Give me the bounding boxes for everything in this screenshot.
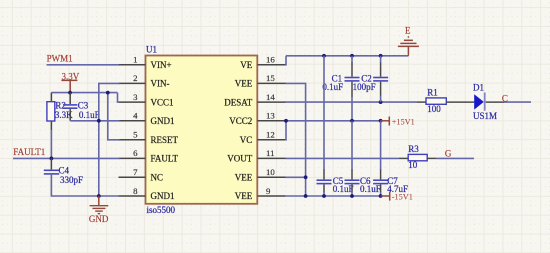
wire pin 10 VEE to riser [286, 176, 306, 178]
pin 16 VE [257, 55, 285, 65]
wire R1 to D1 [446, 101, 474, 103]
wire pin 11 VOUT to R3 [286, 157, 409, 159]
junction VC-VCC2 [284, 119, 288, 123]
pin 8 GND1 [119, 186, 146, 196]
resistor R1 [426, 87, 446, 114]
wire 3.3V rail to pin 3 VCC1 [118, 93, 120, 103]
svg-text:VIN-: VIN- [151, 79, 170, 89]
svg-text:1: 1 [133, 55, 137, 65]
svg-text:0.1uF: 0.1uF [79, 110, 100, 120]
svg-text:2: 2 [133, 73, 137, 83]
junction pin10-VEE riser [304, 175, 308, 179]
pin 11 VOUT [257, 148, 285, 158]
svg-text:G: G [445, 149, 452, 159]
svg-text:GND1: GND1 [151, 191, 175, 201]
svg-text:-15V1: -15V1 [392, 192, 413, 201]
svg-text:10: 10 [266, 167, 275, 177]
net label FAULT1 [13, 147, 45, 157]
svg-text:R3: R3 [408, 144, 419, 154]
svg-text:100: 100 [427, 104, 441, 114]
pin 12 VC [257, 130, 285, 140]
svg-text:VOUT: VOUT [227, 154, 252, 164]
svg-text:VE: VE [240, 60, 252, 70]
svg-text:100pF: 100pF [353, 82, 376, 92]
junction VEE rail C6 [350, 194, 354, 198]
IC U1 iso5500 body [146, 45, 258, 216]
svg-text:9: 9 [266, 186, 271, 196]
pin 7 NC [119, 167, 146, 177]
pin 10 VEE [257, 167, 285, 177]
svg-text:13: 13 [266, 111, 275, 121]
net label G [445, 149, 452, 159]
pin 2 VIN- [119, 73, 146, 83]
pin 15 VEE [257, 73, 285, 83]
svg-text:R1: R1 [427, 87, 438, 97]
svg-text:15: 15 [266, 73, 275, 83]
wire pin 16 VE riser [285, 56, 288, 65]
capacitor C5 [317, 56, 354, 196]
wire pin 15 VEE riser [286, 83, 306, 196]
svg-text:DESAT: DESAT [224, 97, 253, 107]
svg-text:VEE: VEE [235, 191, 253, 201]
pin 14 DESAT [257, 92, 285, 102]
svg-text:11: 11 [266, 148, 274, 158]
svg-text:FAULT1: FAULT1 [13, 147, 45, 157]
svg-text:GND1: GND1 [151, 116, 175, 126]
svg-text:16: 16 [266, 55, 275, 65]
power port +15V1 [381, 117, 415, 127]
junction DESAT-C2 [379, 100, 383, 104]
wire D1 to net C [486, 101, 531, 103]
svg-text:VEE: VEE [235, 173, 253, 183]
junction VEE rail C5 [322, 194, 326, 198]
pin 5 RESET [119, 130, 146, 140]
wire C4 bottom to pin 8 GND1 [51, 175, 119, 196]
wire FAULT1 to pin 6 [13, 157, 120, 159]
junction VE rail C1 column [350, 54, 354, 58]
wire pin 9 VEE rail [286, 195, 381, 197]
capacitor C3 [63, 93, 100, 121]
net label PWM1 [47, 54, 73, 64]
junction VCC2-C7 [379, 119, 383, 123]
svg-text:0.1uF: 0.1uF [333, 184, 354, 194]
junction GND at pin 8 wire [97, 194, 101, 198]
wire VIN- to GND column [99, 83, 120, 196]
wire 3.3V rail to pin 5 RESET [108, 93, 120, 140]
wire R3 to net G [427, 157, 474, 159]
svg-text:PWM1: PWM1 [47, 54, 73, 64]
diode D1 [473, 83, 497, 121]
svg-text:14: 14 [266, 92, 275, 102]
junction VE rail C2 column [379, 54, 383, 58]
svg-text:RESET: RESET [151, 135, 179, 145]
power port -15V1 [381, 192, 413, 202]
junction GND column at pin 4 [97, 119, 101, 123]
wire PWM1 to pin 1 [47, 64, 119, 66]
ground GND [89, 196, 109, 224]
capacitor C7 [373, 121, 408, 196]
svg-text:NC: NC [151, 173, 164, 183]
pin 6 FAULT [119, 148, 146, 158]
junction 3.3V-RESET branch [106, 91, 110, 95]
junction 3.3V-C3 [68, 91, 72, 95]
svg-text:D1: D1 [473, 83, 484, 93]
capacitor C4 [44, 158, 83, 185]
capacitor C2 [353, 56, 389, 102]
junction VCC2-C1 [350, 119, 354, 123]
svg-text:330pF: 330pF [60, 175, 83, 185]
svg-text:VIN+: VIN+ [151, 60, 172, 70]
pin 9 VEE [257, 186, 285, 196]
pin 4 GND1 [119, 111, 146, 121]
svg-text:E: E [405, 25, 411, 35]
svg-text:10: 10 [408, 160, 418, 170]
svg-text:12: 12 [266, 130, 275, 140]
svg-text:3: 3 [133, 92, 138, 102]
wire 3.3V rail [51, 92, 117, 94]
wire pin 13 VCC2 [286, 120, 381, 122]
wire C3 bottom to pin 4 GND1 [70, 120, 119, 122]
svg-text:8: 8 [133, 186, 138, 196]
resistor R3 [408, 144, 427, 170]
svg-text:+15V1: +15V1 [392, 117, 415, 126]
svg-text:US1M: US1M [473, 111, 497, 121]
svg-text:7: 7 [133, 167, 138, 177]
svg-text:C: C [502, 94, 508, 104]
wire VE rail [286, 55, 408, 57]
power port E (earth) [398, 25, 419, 55]
pin 3 VCC1 [119, 92, 146, 102]
junction VEE rail C7 [379, 194, 383, 198]
resistor R2 [47, 93, 73, 130]
wire pin 12 VC riser [285, 121, 287, 140]
pin 1 VIN+ [119, 55, 146, 65]
capacitor C1 [322, 56, 359, 121]
svg-text:U1: U1 [146, 45, 157, 55]
svg-text:iso5500: iso5500 [147, 205, 176, 215]
svg-text:5: 5 [133, 130, 138, 140]
svg-text:0.1uF: 0.1uF [360, 184, 381, 194]
junction R2/C4 on FAULT wire [50, 157, 54, 161]
pin 13 VCC2 [257, 111, 285, 121]
net label C [502, 94, 508, 104]
svg-text:VC: VC [240, 135, 253, 145]
wire R2 bottom to FAULT wire [50, 130, 52, 158]
svg-text:6: 6 [133, 148, 138, 158]
svg-text:VCC1: VCC1 [151, 97, 174, 107]
svg-text:GND: GND [89, 214, 109, 224]
junction VE rail C5 column [322, 54, 326, 58]
capacitor C6 [345, 121, 381, 196]
svg-text:4: 4 [133, 111, 138, 121]
wire pin 14 DESAT to R1 [286, 101, 427, 103]
svg-text:VCC2: VCC2 [229, 116, 252, 126]
svg-text:0.1uF: 0.1uF [322, 82, 343, 92]
svg-text:FAULT: FAULT [151, 154, 179, 164]
junction VEE rail riser [304, 194, 308, 198]
svg-text:VEE: VEE [235, 79, 253, 89]
power port 3.3V [61, 71, 79, 92]
